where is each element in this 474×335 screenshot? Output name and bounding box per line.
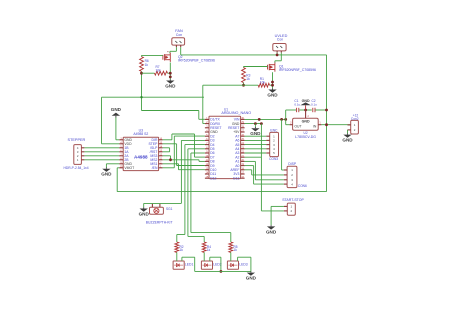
wire DIR to D7 <box>163 134 205 157</box>
wire nano GND row <box>245 122 263 127</box>
transistor Q2 <box>163 51 215 62</box>
svg-text:/EN: /EN <box>152 166 158 170</box>
wire start-stop signal <box>261 124 284 211</box>
ground below Q2 <box>169 79 171 80</box>
svg-text:OUT: OUT <box>294 124 301 128</box>
wire UVLED signal node <box>203 83 258 124</box>
buzzer SG1 <box>146 204 173 224</box>
svg-text:10k: 10k <box>260 80 266 84</box>
resistor R6 1k <box>140 57 149 72</box>
svg-text:CON3: CON3 <box>269 157 278 161</box>
ground LED rail <box>250 271 252 272</box>
wire LED2 wiring <box>204 252 222 272</box>
resistor R2 1k <box>175 242 184 252</box>
svg-text:Con: Con <box>176 33 182 37</box>
svg-text:D12: D12 <box>210 176 216 180</box>
ground below start-stop <box>270 225 272 226</box>
ground right of nano <box>254 127 256 128</box>
wire FAN signal node <box>140 71 154 97</box>
wire UVLED pin1 to +12 rail <box>276 53 279 57</box>
wire +5V VIN distribution row <box>245 118 288 121</box>
svg-text:ENC: ENC <box>270 128 278 132</box>
connector Con2 +12 input <box>348 113 359 134</box>
wire IN wire to Con2 <box>321 123 350 126</box>
capacitor C2 0.1u <box>311 99 317 112</box>
svg-text:IN: IN <box>313 124 317 128</box>
svg-text:10k: 10k <box>156 68 162 72</box>
wire SLP-RST tie <box>163 148 170 152</box>
svg-text:A4988 S2: A4988 S2 <box>133 132 148 136</box>
wire start-stop pin1 to ground <box>271 206 284 225</box>
resistor R7 10k <box>155 65 168 75</box>
svg-text:GND: GND <box>342 138 353 143</box>
svg-text:L7805CV-DG: L7805CV-DG <box>295 135 316 139</box>
svg-text:GND: GND <box>302 119 310 123</box>
wire stepper coil wires <box>84 148 119 160</box>
IC U1 ARDUINO_NANO <box>205 107 251 180</box>
wire Q2 gate net <box>142 55 163 56</box>
connector ENC CON3 <box>266 128 278 160</box>
transistor Q1 <box>268 63 317 73</box>
wire MS1 to D10 <box>163 164 205 170</box>
svg-text:1k: 1k <box>234 248 238 252</box>
svg-text:1k: 1k <box>246 77 250 81</box>
svg-text:START-STOP: START-STOP <box>282 198 304 202</box>
connector FAN Con1 <box>172 29 185 47</box>
svg-text:IRF520NPBF_C708596: IRF520NPBF_C708596 <box>279 68 316 72</box>
wire Q1 gate net <box>244 67 268 68</box>
svg-text:GND: GND <box>111 107 122 112</box>
svg-text:BUZZERPTH-KIT: BUZZERPTH-KIT <box>146 220 173 224</box>
connector START-STOP <box>282 198 304 215</box>
wire A2 to start-stop corner <box>245 156 262 158</box>
wire Q2 source to ground <box>168 63 172 80</box>
svg-text:D13: D13 <box>233 176 239 180</box>
svg-text:CON6: CON6 <box>298 184 307 188</box>
wire D3 to buzzer <box>144 140 205 207</box>
ground below Con2 <box>347 133 349 134</box>
svg-text:VMOT: VMOT <box>124 166 134 170</box>
connector UVLED Con4 <box>273 34 288 53</box>
wire AREF to DISP pin2 <box>245 170 284 175</box>
IC U3 A4988 stepper driver <box>119 129 163 171</box>
svg-text:A4988: A4988 <box>134 155 148 160</box>
ground A4988 pin7 <box>101 164 119 177</box>
wire FAN pin1 to Q2 drain <box>170 47 177 53</box>
wire C2 to +12 <box>315 109 328 112</box>
LED LED2 <box>201 261 221 269</box>
wire cap mid rail <box>299 109 312 112</box>
connector STEPPER header <box>63 138 88 170</box>
svg-text:HDR-P-2.54_1x4: HDR-P-2.54_1x4 <box>63 166 88 170</box>
ground cap mid <box>300 99 311 110</box>
wire A0 to DISP pin4 <box>245 166 284 185</box>
wire +5V to DISP pin1 <box>282 119 284 170</box>
regulator U2 L7805CV <box>290 110 322 139</box>
wire +12 rail from FAN pin2 to IN/VMOT <box>117 47 326 191</box>
resistor R1 10k <box>258 77 269 87</box>
LED LED1 <box>173 261 193 269</box>
wire EN to D2 <box>163 136 205 168</box>
svg-text:Con: Con <box>277 38 283 42</box>
svg-text:GND: GND <box>101 172 112 177</box>
LED LED3 <box>227 261 247 269</box>
ground below Q1 <box>272 88 274 89</box>
wire D5 to R4 <box>188 149 205 242</box>
svg-text:DISP: DISP <box>288 162 297 166</box>
svg-text:GND: GND <box>139 212 150 217</box>
svg-text:0.1u: 0.1u <box>311 102 317 106</box>
resistor R5 1k <box>229 242 238 252</box>
svg-text:STEPPER: STEPPER <box>68 138 86 142</box>
wire Q1 source to ground <box>270 72 274 88</box>
wire D4 to R2 <box>177 145 205 242</box>
wire LED1 wiring <box>177 252 195 271</box>
svg-text:1k: 1k <box>180 248 184 252</box>
wire A1 to DISP pin3 <box>245 161 284 179</box>
wire LED ground rail <box>195 270 251 272</box>
wire LED3 wiring <box>231 252 251 271</box>
svg-text:IRF520NPBF_C708596: IRF520NPBF_C708596 <box>178 59 215 63</box>
resistor R4 1k <box>202 242 211 252</box>
wire UVLED pin2 to Q1 drain <box>275 53 281 63</box>
svg-text:GND: GND <box>302 99 310 103</box>
svg-text:LED1: LED1 <box>185 262 194 266</box>
wire D6 to R5 <box>191 153 231 242</box>
svg-text:LED3: LED3 <box>239 262 248 266</box>
svg-text:SG1: SG1 <box>166 207 173 211</box>
svg-text:GND: GND <box>267 93 278 98</box>
wire VDD +5V feed <box>102 143 120 145</box>
capacitor C1 0.1u <box>294 99 300 112</box>
svg-text:ARDUINO_NANO: ARDUINO_NANO <box>221 111 251 115</box>
svg-text:GND: GND <box>246 276 257 281</box>
wire STEP to D9 <box>163 144 205 166</box>
svg-text:0.1u: 0.1u <box>294 102 300 106</box>
svg-text:GND: GND <box>165 84 176 89</box>
wire A7-A3 to ENC pins <box>245 136 267 153</box>
svg-text:GND: GND <box>266 229 277 234</box>
wire +5V from regulator OUT <box>286 110 296 125</box>
wire VMOT to +12 rail <box>117 168 119 192</box>
wire MS3-MS2 tie and MS2 to D8 <box>163 156 205 162</box>
ground above A4988 pin1 <box>111 107 122 140</box>
svg-text:GND: GND <box>250 131 261 136</box>
wire FAN pwm rail <box>102 96 205 144</box>
ground left of buzzer <box>143 207 145 208</box>
svg-text:1k: 1k <box>145 63 149 67</box>
connector DISP CON6 <box>284 162 307 188</box>
wire Con2 pin2 to ground <box>347 130 349 134</box>
resistor R3 1k <box>242 68 251 83</box>
svg-text:1k: 1k <box>207 248 211 252</box>
